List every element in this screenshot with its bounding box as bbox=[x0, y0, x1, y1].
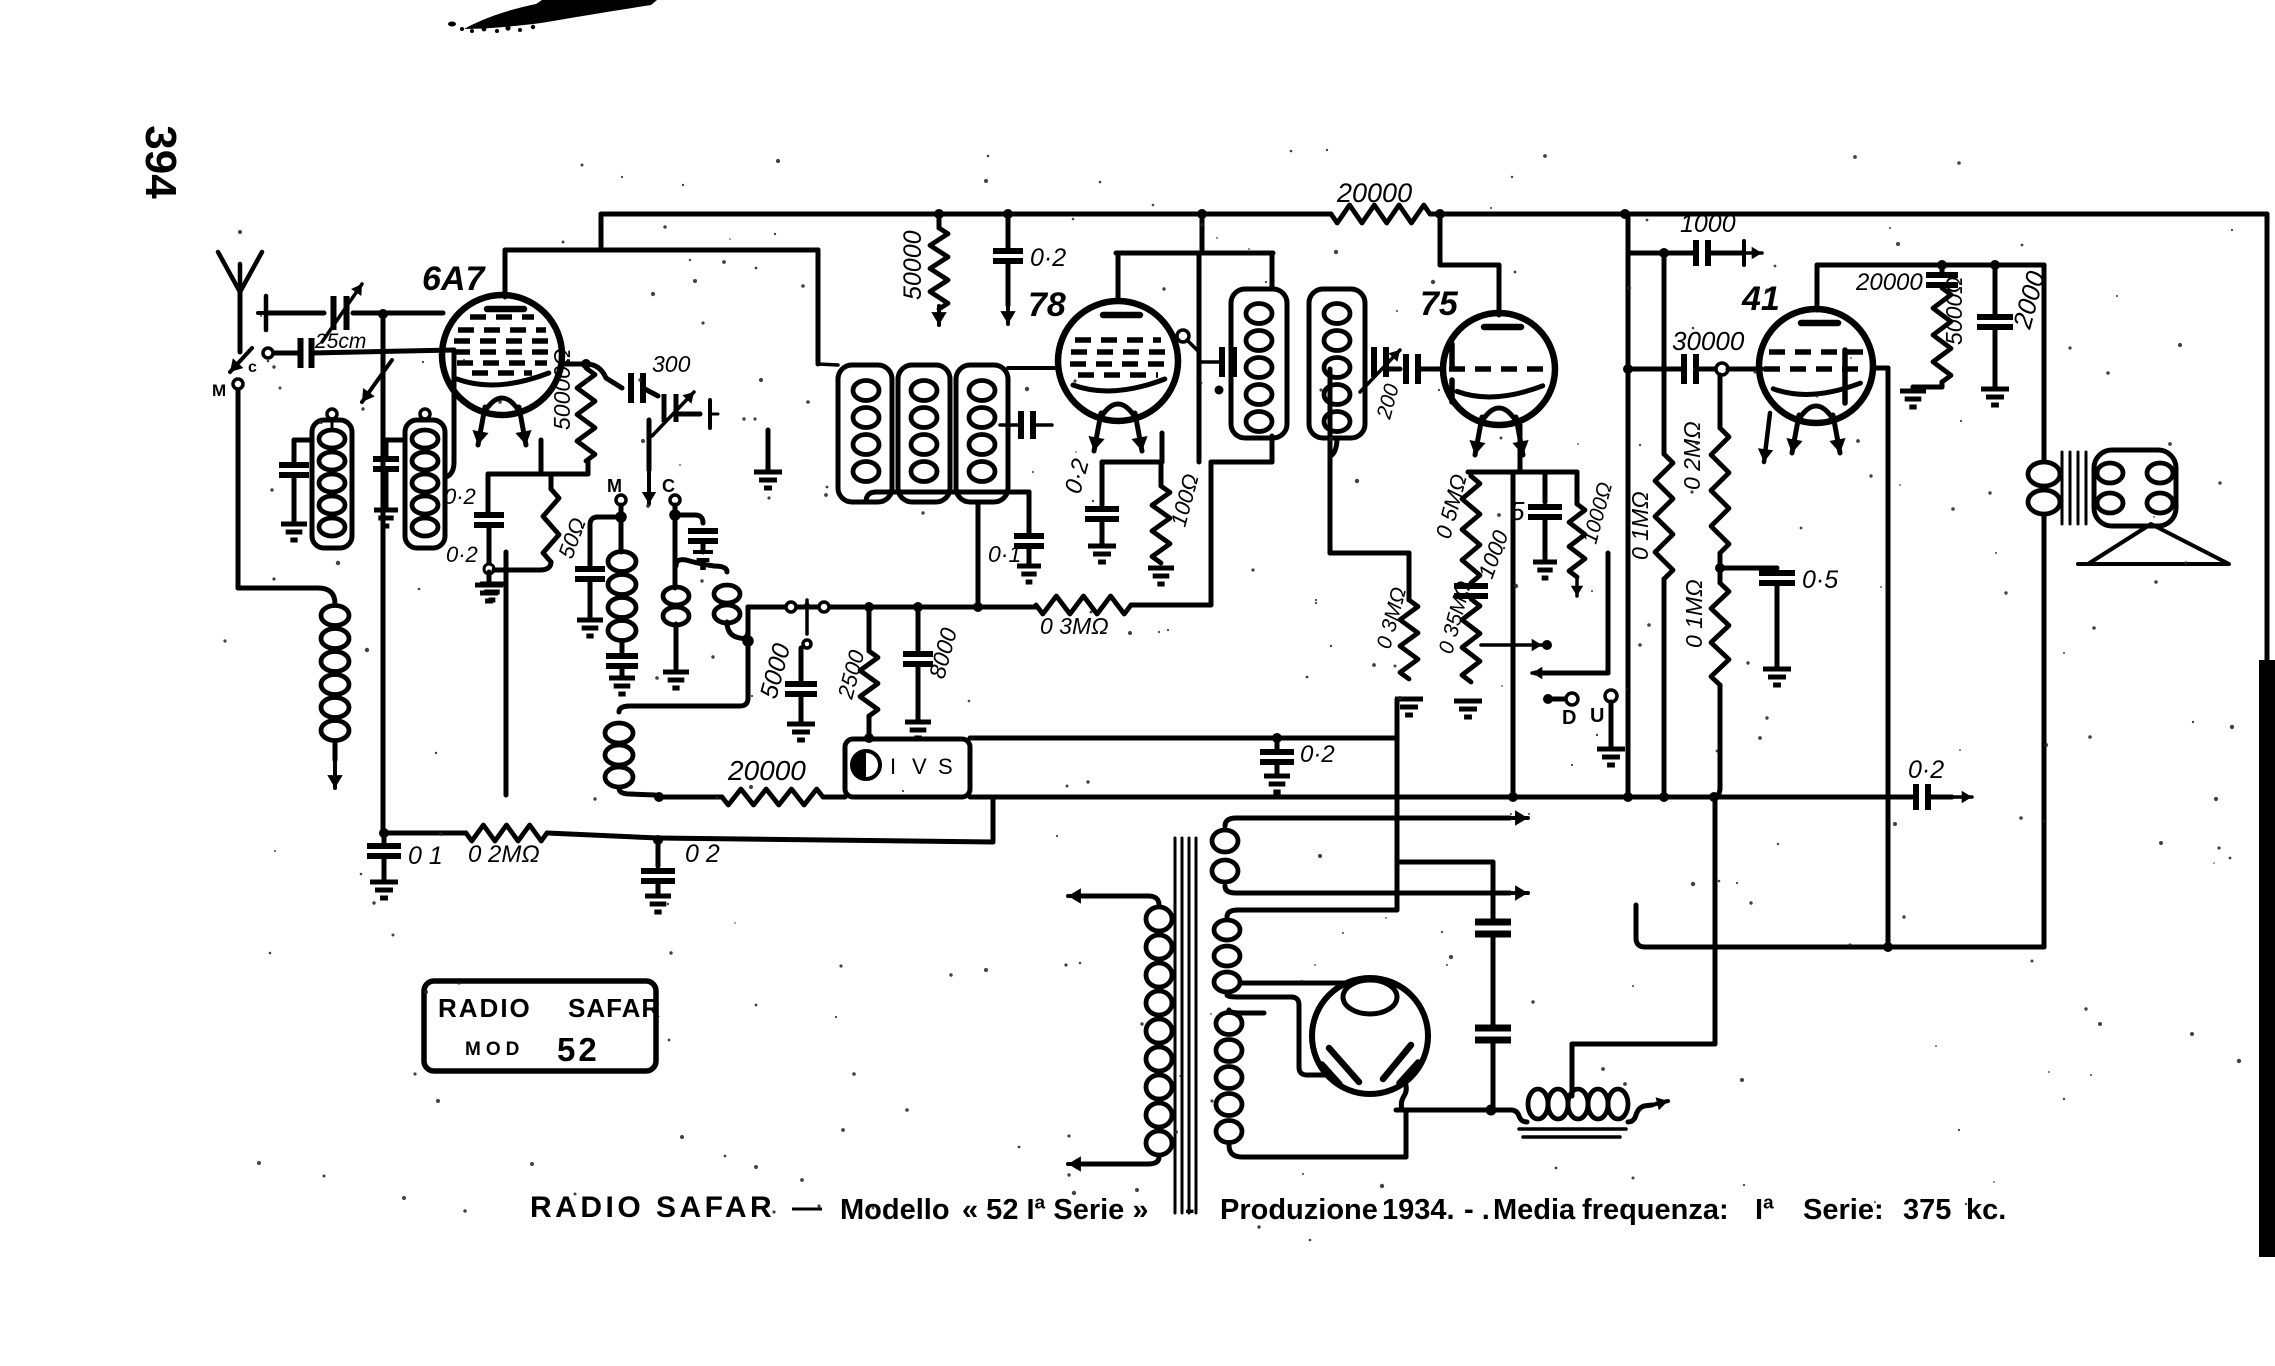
svg-text:30000: 30000 bbox=[1672, 326, 1745, 356]
svg-text:0·2: 0·2 bbox=[1300, 741, 1335, 768]
svg-text:20000: 20000 bbox=[727, 755, 806, 786]
svg-text:78: 78 bbox=[1028, 286, 1066, 324]
svg-text:75: 75 bbox=[1420, 285, 1459, 323]
svg-text:6A7: 6A7 bbox=[422, 260, 486, 298]
svg-text:MOD: MOD bbox=[465, 1039, 524, 1060]
svg-text:20000: 20000 bbox=[1336, 178, 1412, 208]
svg-text:Media: Media bbox=[1493, 1194, 1576, 1226]
svg-text:0 1: 0 1 bbox=[408, 842, 443, 870]
svg-text:52: 52 bbox=[557, 1031, 600, 1068]
svg-text:c: c bbox=[248, 359, 257, 376]
svg-text:- .: - . bbox=[1464, 1194, 1490, 1226]
svg-text:375: 375 bbox=[1903, 1194, 1951, 1226]
svg-text:U: U bbox=[1590, 705, 1604, 727]
svg-text:5000Ω: 5000Ω bbox=[1941, 276, 1967, 345]
svg-text:20000: 20000 bbox=[1855, 269, 1923, 296]
svg-text:0·2: 0·2 bbox=[444, 484, 476, 509]
svg-text:0·1: 0·1 bbox=[988, 541, 1021, 567]
svg-text:Modello: Modello bbox=[840, 1194, 950, 1226]
svg-text:S: S bbox=[938, 754, 953, 779]
svg-text:1000: 1000 bbox=[1680, 210, 1736, 238]
svg-text:0 2MΩ: 0 2MΩ bbox=[468, 841, 540, 868]
svg-text:-: - bbox=[1185, 1194, 1195, 1226]
svg-text:0·2: 0·2 bbox=[1908, 756, 1944, 784]
svg-text:kc.: kc. bbox=[1966, 1194, 2006, 1226]
svg-text:RADIO SAFAR: RADIO SAFAR bbox=[530, 1191, 775, 1224]
svg-text:0·2: 0·2 bbox=[1030, 244, 1066, 272]
svg-text:0 1MΩ: 0 1MΩ bbox=[1681, 579, 1707, 648]
svg-text:50000Ω: 50000Ω bbox=[549, 349, 575, 430]
svg-text:0 3MΩ: 0 3MΩ bbox=[1040, 613, 1109, 639]
svg-text:300: 300 bbox=[652, 351, 691, 377]
svg-text:D: D bbox=[1562, 707, 1576, 729]
svg-text:—: — bbox=[792, 1191, 822, 1224]
svg-text:V: V bbox=[912, 754, 927, 779]
svg-text:Iª: Iª bbox=[1755, 1194, 1774, 1226]
svg-text:41: 41 bbox=[1741, 280, 1780, 318]
svg-text:SAFAR: SAFAR bbox=[568, 993, 661, 1023]
svg-text:frequenza:: frequenza: bbox=[1582, 1194, 1729, 1226]
svg-text:0·5: 0·5 bbox=[1802, 566, 1838, 594]
svg-text:0 2MΩ: 0 2MΩ bbox=[1679, 421, 1705, 490]
svg-text:50000: 50000 bbox=[899, 230, 927, 300]
svg-text:0 1MΩ: 0 1MΩ bbox=[1627, 491, 1653, 560]
svg-text:0·2: 0·2 bbox=[446, 542, 478, 567]
svg-text:« 52 Iª Serie »: « 52 Iª Serie » bbox=[962, 1194, 1148, 1226]
svg-text:C: C bbox=[662, 476, 675, 496]
svg-text:1934.: 1934. bbox=[1382, 1194, 1455, 1226]
svg-text:M: M bbox=[212, 381, 226, 400]
svg-text:RADIO: RADIO bbox=[438, 993, 532, 1023]
svg-text:394: 394 bbox=[136, 125, 185, 199]
svg-text:Produzione: Produzione bbox=[1220, 1194, 1378, 1226]
svg-text:M: M bbox=[607, 476, 622, 496]
svg-text:I: I bbox=[890, 754, 896, 779]
svg-text:0 2: 0 2 bbox=[685, 840, 720, 868]
svg-text:Serie:: Serie: bbox=[1803, 1194, 1884, 1226]
